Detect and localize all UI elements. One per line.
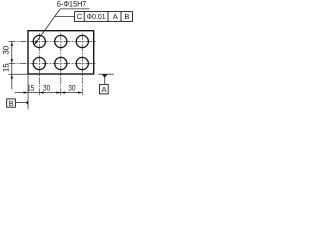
centerline column 2 xyxy=(60,33,62,96)
bottom dim arrow at col1 xyxy=(39,91,43,93)
datum B leader xyxy=(15,102,25,104)
hole bottom-left xyxy=(33,57,45,69)
centerline row 2 xyxy=(9,63,96,65)
svg-text:B: B xyxy=(124,12,129,21)
svg-text:C: C xyxy=(77,12,83,21)
svg-text:A: A xyxy=(101,85,106,94)
datum A triangle xyxy=(102,74,108,77)
svg-text:15: 15 xyxy=(2,63,11,72)
datum A stem xyxy=(104,78,106,85)
bottom dim arrows at col2 xyxy=(56,91,60,93)
left dim arrow at bottom row xyxy=(11,59,13,63)
plate outline xyxy=(28,31,94,74)
datum A box xyxy=(100,84,109,94)
svg-text:6-Φ15H7: 6-Φ15H7 xyxy=(57,0,87,9)
svg-text:Φ0.01: Φ0.01 xyxy=(87,12,106,21)
svg-text:30: 30 xyxy=(43,83,51,92)
hole bottom-middle xyxy=(55,57,67,69)
datum B triangle xyxy=(26,100,29,105)
bottom edge extension left xyxy=(9,73,29,75)
left dimension line xyxy=(11,42,13,90)
leader line to hole xyxy=(35,9,61,45)
leader arrowhead xyxy=(34,40,38,45)
hole top-left xyxy=(33,35,45,47)
leader text underline xyxy=(60,8,89,10)
svg-text:B: B xyxy=(9,99,14,108)
datum A extension line xyxy=(99,73,114,75)
hole top-middle xyxy=(55,35,67,47)
svg-text:30: 30 xyxy=(2,45,11,54)
svg-text:A: A xyxy=(113,12,118,21)
centerline column 3 xyxy=(81,33,83,96)
hole top-right xyxy=(76,35,88,47)
left dim arrow below bottom edge xyxy=(11,74,13,78)
datum B box xyxy=(7,99,16,107)
centerline row 1 xyxy=(9,41,96,43)
svg-text:30: 30 xyxy=(68,83,76,92)
left dim arrow at top row xyxy=(11,42,13,46)
left edge extension line / datum B stem line xyxy=(27,74,29,109)
centerline column 1 xyxy=(38,33,40,96)
bottom dim arrow at col3 xyxy=(78,91,82,93)
bottom dimension line xyxy=(15,92,83,94)
svg-text:15: 15 xyxy=(27,83,35,92)
feature control frame xyxy=(75,12,133,22)
hole bottom-right xyxy=(76,57,88,69)
FCF connector line xyxy=(55,15,75,17)
bottom dim arrow at left edge xyxy=(24,91,28,93)
